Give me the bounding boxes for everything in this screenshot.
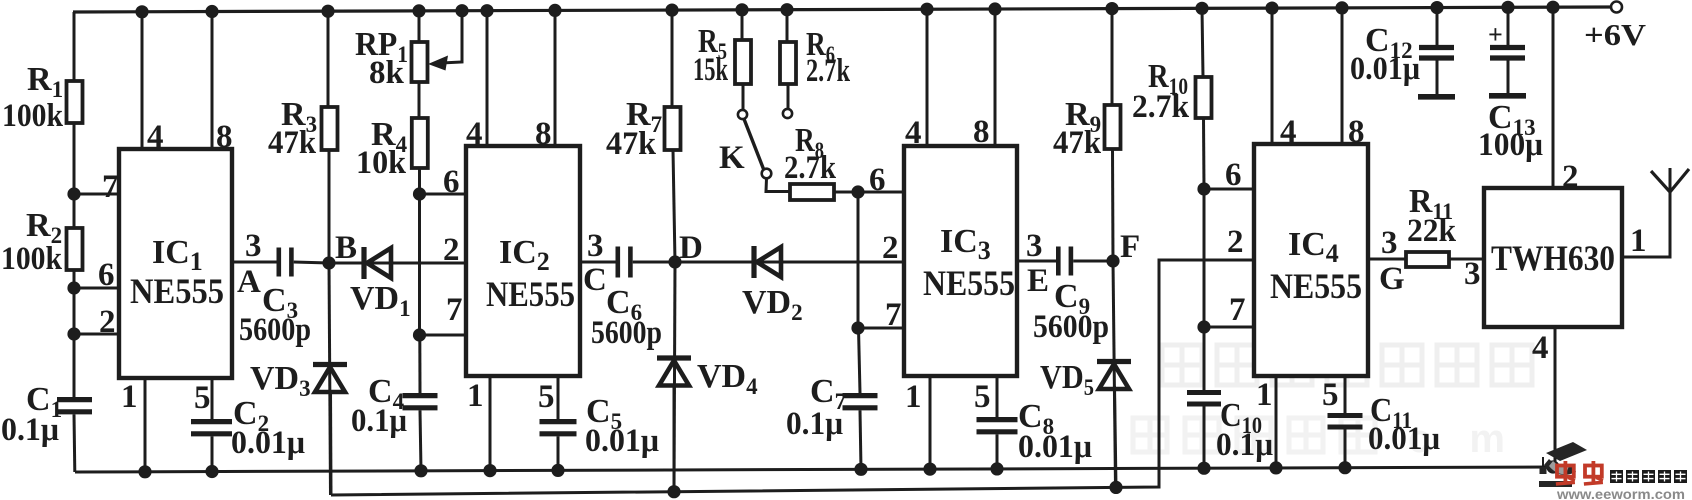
junction RP1 on rail — [412, 4, 425, 17]
junction C5 ground — [551, 464, 564, 477]
wire rail to C13 — [1507, 7, 1510, 46]
junction node F — [1106, 254, 1119, 267]
junction IC4 pin6 node — [1197, 182, 1210, 195]
op-amp timer IC1 NE555 box — [119, 149, 232, 378]
svg-text:B: B — [335, 230, 357, 266]
wire TWH630 pin1 to antenna — [1622, 168, 1670, 257]
junction pin4 IC1 on rail — [135, 5, 148, 18]
amplifier U1 TWH630 box — [1484, 188, 1622, 327]
wire IC4 pin3 output node G — [1368, 258, 1406, 261]
wire C5 to ground — [557, 436, 560, 470]
supply terminal circle — [1611, 2, 1622, 13]
wire C9 to node F — [1073, 260, 1113, 263]
wire RP column down through pin2 wire to pin7 junction — [418, 194, 421, 335]
wire rail to R3 — [327, 11, 330, 107]
capacitor C11 — [1328, 413, 1363, 418]
svg-text:10k: 10k — [356, 145, 407, 181]
junction pin4 IC2 on rail — [480, 4, 493, 17]
capacitor C4 — [403, 393, 438, 398]
junction VD4 second rail — [667, 485, 680, 498]
wire R4 to IC2 pin6 junction — [418, 168, 421, 194]
wire VD5 to second rail (overlap segment) — [1115, 386, 1117, 487]
watermark faint row 2 (decorative, approximated) — [1133, 417, 1519, 461]
wire C7 to ground — [860, 410, 861, 469]
svg-text:NE555: NE555 — [1270, 266, 1362, 306]
junction R9 on rail — [1105, 2, 1118, 15]
junction C2 ground — [205, 465, 218, 478]
wire IC2 pin3 output — [580, 261, 616, 264]
svg-text:5600p: 5600p — [591, 315, 662, 351]
resistor R1 — [67, 81, 83, 123]
wire R6 to switch contact — [787, 84, 790, 109]
svg-text:0.1μ: 0.1μ — [1216, 427, 1273, 463]
svg-text:15k: 15k — [693, 52, 728, 88]
junction TWH630 pin2 on rail — [1546, 1, 1559, 14]
svg-text:3: 3 — [587, 228, 604, 264]
wire IC1 pin4 — [141, 12, 144, 149]
wire IC3 pin1 to ground — [929, 376, 932, 469]
junction IC2 pin6 node — [413, 187, 426, 200]
logo site name characters (drawn) — [1610, 470, 1687, 483]
wire IC2 pin8 — [554, 10, 557, 146]
svg-text:7: 7 — [102, 169, 119, 205]
svg-text:47k: 47k — [1053, 125, 1102, 161]
wire R10 column down through pin2 wire to pin7 junction — [1203, 189, 1206, 327]
wire IC4 pin7 — [1204, 326, 1254, 329]
svg-text:1: 1 — [1256, 377, 1273, 413]
wire R7 to node D — [673, 150, 675, 262]
svg-text:6: 6 — [869, 162, 886, 198]
wire IC1 pin2 — [74, 333, 119, 336]
wire node D down to VD4 — [674, 262, 675, 492]
junction node B — [322, 256, 335, 269]
junction C8 ground — [990, 462, 1003, 475]
svg-text:2.7k: 2.7k — [1132, 89, 1190, 125]
RP1 wiper arrowhead — [428, 56, 448, 71]
resistor R11 — [1406, 252, 1449, 267]
junction VD5 second rail — [1109, 481, 1122, 494]
svg-text:0.01μ: 0.01μ — [1350, 51, 1420, 87]
svg-text:1: 1 — [905, 379, 922, 415]
wire left supply drop — [73, 12, 76, 81]
svg-text:5600p: 5600p — [1033, 309, 1109, 345]
junction R5 on rail — [735, 3, 748, 16]
wire IC3 pin8 — [994, 9, 997, 146]
svg-text:7: 7 — [446, 292, 463, 328]
wire R8 column down through pin2 wire to pin7 junction — [857, 192, 860, 328]
svg-text:+6V: +6V — [1584, 17, 1647, 52]
op-amp timer IC4 NE555 box — [1254, 144, 1368, 376]
diode VD4 — [657, 355, 691, 360]
svg-text:K: K — [719, 140, 745, 176]
wire IC2 pin4 — [486, 11, 489, 146]
wire IC4 pin6 — [1204, 188, 1254, 191]
wire second bottom rail (VD3/VD4/VD5 common to IC4 pin2) — [331, 260, 1254, 495]
svg-text:4: 4 — [1280, 114, 1297, 150]
svg-text:2: 2 — [99, 304, 116, 340]
svg-text:8: 8 — [973, 114, 990, 150]
resistor R9 — [1105, 105, 1121, 149]
svg-text:E: E — [1027, 263, 1049, 299]
svg-text:2: 2 — [1227, 224, 1244, 260]
wire node B down to VD3 — [329, 263, 331, 495]
wire rail to R5 — [741, 10, 744, 40]
svg-text:8k: 8k — [369, 55, 405, 91]
junction C10 ground — [1197, 462, 1210, 475]
logo tassel — [1542, 457, 1544, 467]
junction pin4 IC4 on rail — [1265, 2, 1278, 15]
wire R1 to node pin7 — [73, 123, 76, 228]
svg-text:A: A — [237, 264, 261, 300]
resistor R10 — [1196, 77, 1212, 118]
wire IC3 pin6 — [858, 191, 904, 194]
svg-text:5: 5 — [194, 380, 211, 416]
wire IC3 pin7 — [858, 327, 904, 330]
potentiometer RP1 — [412, 42, 428, 82]
wire rail to C12 — [1436, 8, 1439, 46]
wire rail to R7 — [671, 10, 674, 107]
junction pin8 IC1 on rail — [205, 5, 218, 18]
svg-text:47k: 47k — [606, 126, 657, 162]
junction R6 on rail — [780, 3, 793, 16]
wire IC1 pin1 to ground — [144, 378, 147, 472]
resistor R8 — [790, 184, 834, 200]
wire C11 to ground — [1344, 430, 1347, 468]
wire IC1 pin8 — [211, 12, 214, 150]
svg-text:5: 5 — [974, 379, 991, 415]
wire R2 to C1 — [73, 270, 76, 399]
wire R11 to TWH630 pin3 — [1449, 258, 1484, 261]
capacitor C5 — [540, 419, 577, 424]
svg-text:1: 1 — [1630, 223, 1647, 259]
wire IC2 pin7 — [420, 334, 467, 337]
junction C7 ground — [854, 463, 867, 476]
wire IC3 pin5 to C8 — [996, 376, 999, 418]
junction C12 on rail — [1430, 1, 1443, 14]
capacitor C12 — [1419, 45, 1454, 50]
wire IC1 pin3 output — [232, 261, 277, 264]
wire C3 to node B — [294, 262, 329, 263]
diode VD5 — [1097, 359, 1131, 364]
svg-text:5: 5 — [1322, 377, 1339, 413]
wire rail to TWH630 pin2 — [1552, 7, 1555, 188]
svg-text:TWH630: TWH630 — [1491, 238, 1615, 278]
svg-text:3: 3 — [1026, 228, 1043, 264]
junction IC1 pin1 ground — [138, 465, 151, 478]
wire R10 to IC4 pin6 junction — [1202, 118, 1206, 189]
junction IC1 pin2 node — [67, 327, 80, 340]
svg-text:3: 3 — [1381, 225, 1398, 261]
resistor R2 — [67, 228, 83, 270]
junction IC1 pin7 node — [67, 187, 80, 200]
junction pin8 IC3 on rail — [988, 2, 1001, 15]
wire C10 to ground — [1203, 407, 1206, 469]
resistor R5 — [735, 40, 751, 84]
svg-text:1: 1 — [121, 379, 138, 415]
wire RP1 to R4 — [418, 82, 421, 118]
wire VD4 to second rail (overlap segment) — [673, 385, 676, 492]
junction TWH630 pin4 ground — [1546, 460, 1559, 473]
switch pole circle — [762, 169, 772, 179]
svg-text:2.7k: 2.7k — [806, 53, 850, 89]
junction IC2 pin1 ground — [483, 464, 496, 477]
wire IC4 pin5 to C11 — [1344, 376, 1347, 415]
capacitor C6 (series) — [615, 247, 620, 278]
svg-text:6: 6 — [443, 164, 460, 200]
svg-text:0.1μ: 0.1μ — [351, 403, 407, 439]
junction IC3 pin1 ground — [923, 463, 936, 476]
wire C8 to ground — [996, 434, 999, 469]
svg-text:NE555: NE555 — [923, 263, 1015, 303]
resistor R6 — [780, 42, 796, 84]
junction IC3 pin6 node — [851, 185, 864, 198]
svg-text:NE555: NE555 — [486, 274, 575, 314]
logo red character 2 (drawn) — [1584, 461, 1603, 484]
logo graduation cap — [1546, 442, 1587, 461]
op-amp timer IC2 NE555 box — [466, 146, 580, 376]
svg-text:0.1μ: 0.1μ — [1, 412, 59, 448]
watermark faint row 1 (decorative, approximated) — [1162, 345, 1532, 385]
svg-text:3: 3 — [1464, 256, 1481, 292]
wire down to C7 — [859, 328, 861, 393]
svg-text:100k: 100k — [2, 98, 64, 134]
svg-text:6: 6 — [1225, 157, 1242, 193]
wire rail to R9 — [1111, 9, 1114, 105]
wire node B to IC2 pin2 — [329, 262, 466, 265]
wire IC2 pin1 to ground — [489, 376, 492, 471]
wire IC4 pin8 — [1341, 8, 1344, 144]
wire IC4 pin1 to ground — [1275, 376, 1278, 468]
switch contact circle (R6 side) — [783, 109, 792, 118]
wire C1 to ground rail — [73, 414, 77, 472]
svg-text:2: 2 — [882, 230, 899, 266]
wire down to C4 — [418, 335, 421, 395]
diode VD1 — [361, 247, 366, 279]
switch K blade — [744, 119, 764, 169]
svg-text:8: 8 — [216, 119, 233, 155]
wire node F down to VD5 — [1113, 261, 1116, 487]
svg-text:7: 7 — [885, 297, 902, 333]
svg-text:4: 4 — [905, 115, 922, 151]
capacitor C1 — [57, 397, 92, 402]
junction R3 on rail — [321, 5, 334, 18]
logo red character 1 (drawn) — [1556, 461, 1575, 484]
junction IC3 pin7 node — [851, 321, 864, 334]
capacitor C10 — [1187, 390, 1221, 395]
wire IC2 pin5 to C5 — [557, 376, 560, 419]
svg-text:0.01μ: 0.01μ — [585, 423, 659, 459]
junction IC1 pin6 node — [67, 281, 80, 294]
wire node D to IC3 pin2 — [675, 261, 904, 264]
junction R7 on rail — [665, 4, 678, 17]
antenna — [1651, 171, 1670, 192]
junction C4 ground — [414, 464, 427, 477]
capacitor C13 (electrolytic) — [1490, 45, 1525, 50]
junction pin8 IC2 on rail — [548, 4, 561, 17]
wire R8 to IC3 pin6 junction — [834, 191, 858, 194]
svg-text:0.01μ: 0.01μ — [1368, 421, 1440, 457]
svg-text:2.7k: 2.7k — [784, 150, 837, 186]
diode VD2 — [751, 246, 756, 278]
junction IC4 pin1 ground — [1269, 461, 1282, 474]
logo base bar — [1539, 481, 1572, 487]
junction IC2 pin7 node — [413, 328, 426, 341]
wire IC1 pin6 — [74, 287, 119, 290]
wire rail to RP1 — [418, 11, 421, 42]
capacitor C8 — [977, 417, 1018, 422]
wire R9 to node F — [1111, 149, 1115, 261]
svg-text:www.eeworm.com: www.eeworm.com — [1556, 487, 1685, 500]
wire down to C10 — [1203, 327, 1206, 390]
svg-text:3: 3 — [245, 228, 262, 264]
svg-text:5600p: 5600p — [239, 312, 311, 348]
svg-text:0.01μ: 0.01μ — [231, 425, 305, 461]
svg-text:47k: 47k — [268, 125, 317, 161]
wire switch pole to R8 — [766, 179, 790, 192]
wire +6V top supply rail — [73, 7, 1610, 12]
wire main bottom ground rail — [75, 467, 1553, 472]
junction wiper wire on rail — [455, 4, 468, 17]
wire C4 to ground — [420, 410, 421, 470]
svg-text:+: + — [1488, 20, 1503, 49]
diode VD3 — [313, 362, 347, 367]
svg-text:4: 4 — [147, 119, 164, 155]
svg-text:8: 8 — [535, 116, 552, 152]
svg-text:100μ: 100μ — [1478, 127, 1543, 163]
wire C2 to ground — [211, 436, 214, 471]
op-amp timer IC3 NE555 box — [904, 146, 1017, 376]
wire IC1 pin7 — [74, 193, 119, 196]
svg-text:4: 4 — [1532, 330, 1549, 366]
junction node D — [668, 255, 681, 268]
svg-text:G: G — [1379, 261, 1405, 297]
svg-text:F: F — [1120, 229, 1140, 265]
svg-text:22k: 22k — [1407, 213, 1457, 249]
capacitor C3 (series) — [276, 248, 281, 277]
svg-text:1: 1 — [467, 378, 484, 414]
wire IC3 pin3 output — [1017, 260, 1057, 263]
svg-text:C: C — [583, 262, 607, 298]
resistor R7 — [665, 107, 681, 150]
wire VD3 to second rail (overlap segment) — [329, 390, 333, 495]
svg-text:5: 5 — [538, 379, 555, 415]
svg-text:0.01μ: 0.01μ — [1018, 429, 1092, 465]
junction R10 on rail — [1195, 2, 1208, 15]
svg-text:0.1μ: 0.1μ — [786, 406, 843, 442]
wire R3 to node B — [328, 150, 331, 263]
junction C11 ground — [1338, 461, 1351, 474]
svg-text:6: 6 — [98, 257, 115, 293]
resistor R3 — [322, 107, 338, 150]
capacitor C2 — [191, 419, 232, 424]
wire IC4 pin4 — [1271, 8, 1274, 144]
junction pin8 IC4 on rail — [1335, 1, 1348, 14]
junction C13 on rail — [1501, 1, 1514, 14]
junction pin4 IC3 on rail — [920, 3, 933, 16]
wire rail to R6 — [786, 10, 789, 42]
wire IC2 pin6 — [420, 193, 467, 196]
capacitor C7 — [843, 393, 878, 398]
svg-text:100k: 100k — [1, 241, 63, 277]
svg-text:8: 8 — [1348, 114, 1365, 150]
svg-text:NE555: NE555 — [130, 271, 224, 311]
svg-text:2: 2 — [443, 232, 460, 268]
svg-text:4: 4 — [466, 116, 483, 152]
wire C6 to node D — [633, 261, 675, 264]
wire TWH630 pin4 to ground — [1554, 327, 1557, 467]
wire RP1 wiper feed — [436, 11, 462, 64]
resistor R4 — [412, 118, 428, 168]
capacitor C9 (series) — [1056, 247, 1061, 276]
wire R5 to switch contact — [742, 84, 745, 110]
svg-text:7: 7 — [1229, 292, 1246, 328]
junction IC4 pin7 node — [1197, 320, 1210, 333]
wire rail to R10 — [1202, 8, 1203, 77]
wire IC1 pin5 to C2 — [211, 378, 214, 421]
wire IC3 pin4 — [926, 9, 929, 146]
switch contact circle (R5 side) — [738, 110, 747, 119]
